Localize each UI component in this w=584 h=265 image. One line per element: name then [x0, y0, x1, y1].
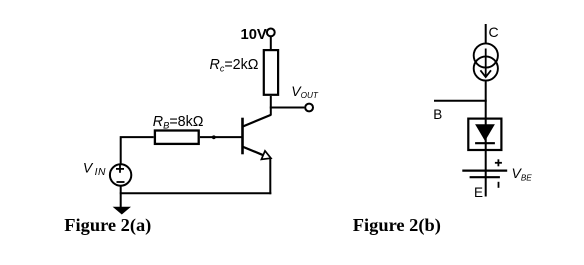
- svg-text:10V: 10V: [241, 26, 267, 43]
- current source circle upper: [474, 43, 498, 67]
- terminal VOUT: [305, 104, 313, 112]
- diode D cathode bar: [475, 142, 495, 144]
- svg-text:B: B: [433, 107, 442, 122]
- battery VBE long plate: [462, 170, 507, 172]
- ground symbol: [114, 207, 130, 214]
- svg-text:RB=8kΩ: RB=8kΩ: [153, 114, 204, 131]
- current source arrowhead: [480, 70, 491, 77]
- wire node to VOUT terminal: [270, 107, 305, 109]
- diode box: [468, 119, 501, 150]
- wire E terminal: [485, 171, 487, 197]
- svg-text:Figure 2(b): Figure 2(b): [353, 215, 441, 236]
- transistor Q1 collector lead: [243, 115, 271, 127]
- wire source to box: [485, 81, 487, 117]
- battery plus sign: [495, 162, 502, 164]
- svg-text:Figure 2(a): Figure 2(a): [64, 215, 151, 236]
- wire RB to base with junction: [200, 136, 243, 138]
- wire B terminal: [434, 100, 487, 102]
- wire through box: [485, 118, 487, 171]
- battery minus tick: [498, 182, 500, 188]
- wire emitter down: [269, 158, 271, 194]
- diode D triangle: [475, 124, 495, 141]
- wire RC bottom to collector node: [270, 96, 272, 116]
- svg-text:VOUT: VOUT: [291, 83, 319, 100]
- resistor RB: [155, 131, 199, 144]
- svg-text:Rc=2kΩ: Rc=2kΩ: [210, 57, 259, 74]
- transistor Q1 base bar: [241, 118, 244, 155]
- wire supply to RC: [270, 37, 272, 50]
- wire VIN bottom to ground: [120, 186, 122, 207]
- battery VBE short plate: [470, 176, 500, 178]
- terminal 10V supply: [267, 29, 275, 37]
- transistor Q1 emitter lead: [243, 147, 264, 156]
- svg-text:C: C: [489, 24, 499, 40]
- current source circle lower: [474, 56, 498, 80]
- junction dot on base wire: [212, 135, 216, 139]
- wire bottom horizontal: [120, 192, 271, 194]
- resistor RC: [264, 50, 278, 95]
- wire VIN top to RB: [121, 137, 154, 163]
- svg-text:VBE: VBE: [512, 165, 533, 182]
- svg-text:V: V: [83, 159, 94, 175]
- current source arrow shaft: [485, 49, 487, 77]
- source VIN: [110, 164, 131, 185]
- svg-text:E: E: [474, 185, 483, 200]
- VIN minus sign: [117, 181, 125, 183]
- wire C terminal: [485, 24, 487, 44]
- svg-text:IN: IN: [95, 167, 106, 178]
- transistor Q1 emitter arrowhead: [261, 151, 271, 159]
- VIN plus sign: [116, 168, 124, 170]
